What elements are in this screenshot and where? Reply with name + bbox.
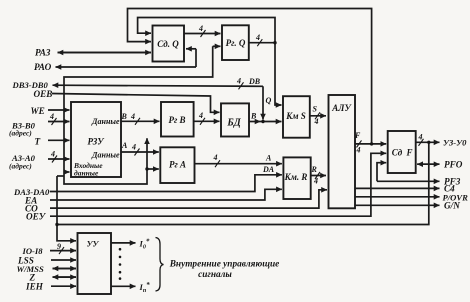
svg-text:4: 4 <box>213 153 218 162</box>
svg-text:А: А <box>265 154 272 163</box>
svg-text:данные: данные <box>74 169 99 178</box>
svg-text:4: 4 <box>49 112 54 121</box>
svg-text:4: 4 <box>130 112 135 121</box>
svg-text:S: S <box>313 105 318 114</box>
svg-text:Рг В: Рг В <box>168 115 185 125</box>
svg-text:R: R <box>311 165 318 174</box>
svg-text:Т: Т <box>35 137 41 147</box>
svg-text:G/N: G/N <box>444 201 460 211</box>
svg-text:У3-У0: У3-У0 <box>443 138 467 148</box>
svg-text:В: В <box>250 112 257 121</box>
svg-text:F: F <box>405 148 412 158</box>
svg-text:Данные: Данные <box>91 117 120 126</box>
svg-text:4: 4 <box>198 111 203 120</box>
svg-text:РЗУ: РЗУ <box>88 137 106 147</box>
svg-text:9: 9 <box>57 242 61 251</box>
svg-text:4: 4 <box>255 33 260 42</box>
svg-text:Внутренние управляющие: Внутренние управляющие <box>169 260 280 270</box>
svg-text:Рг. Q: Рг. Q <box>226 38 246 48</box>
svg-text:F: F <box>354 131 361 140</box>
svg-text:Км. R: Км. R <box>284 172 308 182</box>
svg-text:4: 4 <box>198 24 203 33</box>
svg-text:4: 4 <box>314 117 319 126</box>
svg-text:Сд: Сд <box>392 148 403 158</box>
svg-text:WE: WE <box>31 106 45 116</box>
svg-text:сигналы: сигналы <box>198 270 232 280</box>
svg-text:РАО: РАО <box>34 62 52 72</box>
svg-text:(адрес): (адрес) <box>9 162 32 171</box>
svg-text:Данные: Данные <box>91 151 120 160</box>
svg-text:4: 4 <box>236 77 241 86</box>
svg-text:Рг А: Рг А <box>169 160 186 170</box>
svg-text:ОЕВ: ОЕВ <box>34 89 53 99</box>
svg-text:DА: DА <box>262 165 275 174</box>
svg-text:4: 4 <box>356 146 361 155</box>
svg-text:4: 4 <box>131 143 136 152</box>
svg-text:PFO: PFO <box>444 160 463 170</box>
svg-text:Q: Q <box>266 96 272 105</box>
svg-text:В: В <box>121 112 128 121</box>
svg-text:АЛУ: АЛУ <box>331 103 352 113</box>
svg-text:DВ: DВ <box>248 77 261 86</box>
svg-text:УУ: УУ <box>87 239 100 249</box>
svg-text:ОЕУ: ОЕУ <box>26 212 47 222</box>
svg-text:4: 4 <box>313 177 318 186</box>
svg-text:4: 4 <box>418 133 423 142</box>
svg-text:IЕН: IЕН <box>25 282 44 292</box>
svg-text:Км S: Км S <box>285 111 306 121</box>
svg-text:IO-I8: IO-I8 <box>22 246 44 256</box>
svg-text:РАЗ: РАЗ <box>35 48 51 58</box>
svg-text:(адрес): (адрес) <box>9 129 32 138</box>
svg-text:4: 4 <box>50 150 55 159</box>
svg-text:БД: БД <box>226 118 241 129</box>
svg-text:Сд. Q: Сд. Q <box>157 39 179 49</box>
svg-text:А: А <box>121 141 128 150</box>
